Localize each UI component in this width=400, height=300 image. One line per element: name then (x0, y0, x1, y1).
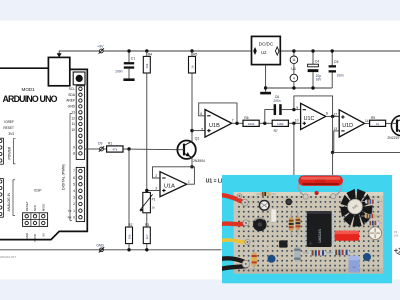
svg-text:10k: 10k (394, 233, 399, 237)
wire R4 down to P1 node (146, 73, 148, 192)
arduino USB connector (48, 57, 69, 85)
wire +9V rail right segment (280, 50, 400, 52)
svg-text:8: 8 (326, 112, 328, 116)
capacitor C1 (115, 51, 135, 78)
junction dot DC/DC ground node (264, 86, 267, 89)
wire R6 to node A (259, 122, 272, 124)
svg-text:GND: GND (68, 105, 76, 109)
svg-text:4: 4 (73, 189, 75, 193)
junction dot R4/rail (145, 49, 148, 52)
junction dot C4/rail (311, 49, 314, 52)
U1 power pin symbol (pin 4) (290, 74, 298, 82)
wire U1C out node down (332, 116, 334, 152)
junction dot emitter/feedback (190, 165, 193, 168)
wire U1B output (232, 122, 243, 124)
svg-text:100k: 100k (277, 122, 284, 126)
svg-text:100n: 100n (115, 70, 123, 74)
junction dot collector/U1B branch (190, 129, 193, 132)
svg-text:MOSI: MOSI (33, 234, 37, 242)
svg-text:DIGITAL (PWM): DIGITAL (PWM) (62, 164, 66, 190)
svg-text:3: 3 (73, 196, 75, 200)
yellow wire (220, 240, 246, 242)
bottom striped resistor 1 (303, 250, 331, 255)
svg-text:R5: R5 (193, 52, 197, 56)
black wire 1 (220, 258, 246, 262)
module MOD1 Arduino Uno outline (0, 68, 87, 239)
wire R1 to Q1 base (123, 148, 178, 151)
wire rail to pin11 (293, 51, 295, 56)
wire sense node down into photo (332, 152, 334, 176)
svg-text:11: 11 (72, 122, 76, 126)
svg-text:R6: R6 (244, 116, 248, 120)
svg-text:1k: 1k (376, 122, 380, 126)
wire node down to R2 (128, 149, 130, 227)
wire U1A feedback loop (153, 167, 195, 184)
resistor R1 (103, 141, 123, 152)
svg-text:RESET: RESET (3, 126, 14, 130)
analog in bracket (13, 180, 15, 216)
arrow into USB box (57, 53, 62, 57)
arduino power pin labels (3, 120, 14, 136)
svg-text:13: 13 (71, 111, 75, 115)
connector +9V pinhead (99, 48, 104, 53)
svg-text:1: 1 (188, 180, 190, 184)
arduino power pins (0, 138, 3, 164)
svg-text:10: 10 (71, 128, 75, 132)
svg-text:SCK: SCK (33, 205, 37, 211)
wire U1D - input from sense line (334, 131, 339, 151)
svg-text:P1: P1 (152, 198, 156, 202)
transistor Q2 2N2219 (387, 116, 400, 141)
ICSP header (23, 213, 48, 227)
svg-text:R9: R9 (371, 116, 375, 120)
wire R3 bottom (146, 244, 148, 250)
svg-text:100n: 100n (337, 73, 344, 77)
junction dot R3/gnd (145, 248, 148, 251)
svg-text:C1: C1 (131, 56, 135, 60)
svg-text:MISO: MISO (41, 203, 45, 211)
junction dot R5/rail (190, 49, 193, 52)
svg-text:100k: 100k (248, 122, 255, 126)
svg-text:10k: 10k (127, 234, 131, 239)
arduino analog pins (0, 179, 3, 218)
resistor R4 (143, 52, 152, 73)
svg-text:10k: 10k (145, 63, 149, 68)
power bracket (14, 139, 16, 164)
svg-text:2N2219: 2N2219 (387, 136, 399, 140)
bottom striped resistor 2 (327, 250, 355, 255)
ground bar under DC/DC (260, 92, 271, 95)
perfboard (234, 192, 384, 274)
resistor R5 (189, 52, 198, 73)
junction dot C4/y88 (311, 86, 314, 89)
wire node A riser to C6 (265, 110, 274, 124)
junction dot base node (127, 147, 130, 150)
wire ground bus (0, 249, 222, 251)
svg-text:1k: 1k (152, 205, 156, 209)
wire R9 to Q2 (386, 122, 393, 124)
svg-text:12: 12 (334, 113, 338, 117)
top banner band (0, 0, 400, 21)
blue bead right (363, 253, 371, 261)
resistor R7 (272, 120, 288, 133)
svg-text:C4: C4 (315, 60, 319, 64)
junction dot emitter sense node (331, 151, 334, 154)
svg-text:5V: 5V (41, 233, 45, 237)
tiny symbol right of photo (394, 248, 400, 253)
resistor R2 (126, 223, 133, 244)
junction dot C5/rail (331, 49, 334, 52)
perfboard holes (239, 197, 378, 271)
svg-text:POWER: POWER (8, 146, 12, 159)
svg-text:R4: R4 (148, 52, 152, 56)
svg-text:14: 14 (365, 119, 369, 123)
wire supply rail y88 (266, 87, 333, 89)
svg-text:P2: P2 (394, 230, 398, 234)
wire collector node to U1B + (192, 130, 205, 132)
junction dot U1C - node (292, 108, 295, 111)
black round transistor (253, 218, 267, 232)
svg-text:DC/DC: DC/DC (259, 42, 274, 47)
wire pin11 to pin4 (293, 64, 295, 75)
junction dot node A (263, 122, 266, 125)
svg-text:AREF: AREF (66, 99, 75, 103)
small resistor top (256, 192, 276, 196)
svg-text:13: 13 (334, 127, 338, 131)
small black cap (285, 198, 292, 205)
svg-text:5: 5 (73, 182, 75, 186)
resistor R6 (243, 116, 259, 126)
svg-text:IOREF: IOREF (4, 120, 14, 124)
svg-text:GND: GND (96, 244, 104, 248)
junction dot R2/gnd (127, 248, 130, 251)
op-amp U1D (334, 110, 369, 137)
white rectangular part (271, 209, 277, 222)
svg-text:U1C: U1C (304, 116, 315, 122)
svg-text:2: 2 (73, 202, 75, 206)
svg-text:R1: R1 (108, 141, 112, 145)
wire +9V to arduino supply (59, 51, 99, 54)
white trimmer knob (368, 226, 382, 240)
svg-text:5: 5 (201, 127, 203, 131)
svg-text:8: 8 (73, 152, 75, 156)
svg-text:0: 0 (73, 215, 75, 219)
svg-text:12: 12 (71, 116, 75, 120)
wire DC/DC bottom to ground (265, 65, 267, 88)
transistor Q1 2N3904 (177, 137, 205, 163)
red fuse component (298, 176, 343, 200)
right small resistor 3 (364, 221, 382, 225)
blue box capacitor (349, 256, 360, 273)
resistor R9 (370, 116, 386, 126)
svg-text:ARDUINO UNO: ARDUINO UNO (3, 94, 58, 104)
wire arduino pin9 out (85, 148, 99, 150)
wire C6 to U1C - node (282, 109, 294, 111)
svg-text:SCL: SCL (69, 87, 76, 91)
svg-text:4: 4 (293, 76, 295, 80)
black rotor fan (340, 189, 373, 227)
big blue bead (268, 255, 276, 263)
svg-text:RESET: RESET (25, 201, 29, 211)
capacitor C5 (100n) (329, 51, 344, 88)
connector GND pinhead (99, 247, 104, 252)
svg-text:10: 10 (295, 119, 299, 123)
wire R7 to U1C + (288, 122, 300, 124)
wire pin4 down to rail y88 (293, 82, 295, 88)
svg-text:1k: 1k (190, 65, 194, 69)
svg-text:C5: C5 (334, 60, 338, 64)
svg-text:6: 6 (200, 112, 202, 116)
svg-text:1µ: 1µ (353, 265, 356, 269)
svg-text:4k7: 4k7 (145, 234, 149, 239)
trimmer P1 (140, 192, 156, 212)
red wire 2 (220, 221, 245, 226)
junction dot U1C out (331, 115, 334, 118)
junction dot P1 node (145, 189, 148, 192)
bottom-left vertical resistor (252, 249, 257, 269)
svg-text:R3: R3 (145, 223, 149, 227)
wire sense node to right edge (333, 151, 400, 153)
red wire end dot (315, 191, 319, 195)
svg-text:SDA: SDA (68, 93, 76, 97)
svg-text:200n: 200n (273, 99, 280, 103)
DIP IC LM324 (303, 211, 335, 247)
junction dot U1B out/feedback (235, 122, 238, 125)
vertical resistor pair (289, 213, 294, 236)
ICSP labels (25, 189, 46, 242)
right small resistor 2 (361, 214, 382, 218)
black wire 2 (220, 266, 247, 269)
wire R5 top (191, 51, 193, 56)
svg-text:U1D: U1D (342, 123, 353, 129)
svg-text:7: 7 (232, 118, 234, 122)
svg-text:U1B: U1B (209, 123, 220, 129)
wire U1C + node down into photo (293, 123, 295, 176)
svg-text:MOD1: MOD1 (22, 87, 36, 92)
svg-text:1: 1 (73, 209, 75, 213)
wire R5 to Q1 collector (191, 73, 193, 142)
red wire 1 (221, 195, 243, 202)
resistor R3 (143, 223, 150, 244)
svg-text:3V3: 3V3 (8, 132, 14, 136)
black square part (279, 240, 287, 247)
svg-text:R7: R7 (274, 129, 278, 133)
bottom banner band (0, 280, 400, 300)
svg-text:LM324N: LM324N (318, 229, 322, 243)
svg-text:6: 6 (73, 176, 75, 180)
svg-text:11: 11 (292, 58, 296, 62)
svg-text:9: 9 (73, 146, 75, 150)
junction dot U1C + node (292, 122, 295, 125)
wire R4 top (146, 51, 148, 56)
grey cylinder cap (294, 247, 300, 262)
op-amp U1C (295, 103, 328, 129)
svg-text:GND: GND (25, 232, 29, 240)
digital pwm bracket (70, 114, 72, 221)
solder lugs (242, 199, 248, 205)
wire U1A + input (147, 190, 160, 192)
svg-text:R2: R2 (128, 223, 132, 227)
svg-text:200403-007: 200403-007 (0, 255, 16, 259)
svg-text:16V: 16V (316, 77, 323, 81)
junction dot C1/rail (127, 49, 130, 52)
U1 power pin symbol (pin 11) (290, 56, 298, 64)
svg-text:47k: 47k (112, 147, 117, 151)
svg-text:ANALOG IN: ANALOG IN (7, 192, 11, 211)
wire R2 bottom (128, 244, 130, 250)
arduino digital pin header (lower) (68, 167, 85, 221)
svg-text:U2: U2 (261, 50, 267, 55)
capacitor C6 (200n) (273, 95, 281, 115)
junction dot pin4/y88 (292, 86, 295, 89)
svg-text:Q1: Q1 (195, 137, 200, 141)
svg-text:2N3904: 2N3904 (193, 159, 205, 163)
right small resistor 1 (361, 200, 382, 204)
junction dot rail/U1 supply (292, 49, 295, 52)
red box capacitor (335, 231, 359, 241)
svg-text:ICSP: ICSP (34, 189, 41, 193)
dc/dc converter U2 (252, 36, 281, 64)
wire Q1 emitter down (191, 158, 193, 167)
wire P1 down to R3 (146, 213, 148, 227)
wire U1B feedback loop (199, 103, 237, 123)
svg-text:US91: US91 (315, 179, 327, 184)
arduino digital pin header (upper) (66, 86, 84, 160)
wire U1C feedback loop (294, 96, 333, 117)
wire U1C - input (294, 109, 301, 111)
op-amp U1A (155, 172, 190, 197)
ground bar below C1 (123, 78, 134, 81)
svg-text:D9: D9 (98, 141, 102, 145)
jumper wires (246, 209, 256, 218)
op-amp U1B (200, 110, 233, 138)
svg-text:+9V: +9V (97, 44, 104, 48)
svg-text:7: 7 (73, 169, 75, 173)
svg-text:RX: RX (68, 216, 72, 220)
wire U1C output (326, 115, 340, 117)
arduino power jack (73, 72, 85, 85)
svg-text:U1A: U1A (164, 184, 175, 190)
connector D9 pinhead (99, 146, 104, 151)
electrolytic cap white top (259, 200, 270, 211)
photo inset of circuit board (220, 175, 392, 284)
wire U1D output (365, 122, 370, 124)
capacitor C4 (10u/16V) (308, 51, 323, 88)
wire +9V rail left segment (103, 50, 251, 52)
